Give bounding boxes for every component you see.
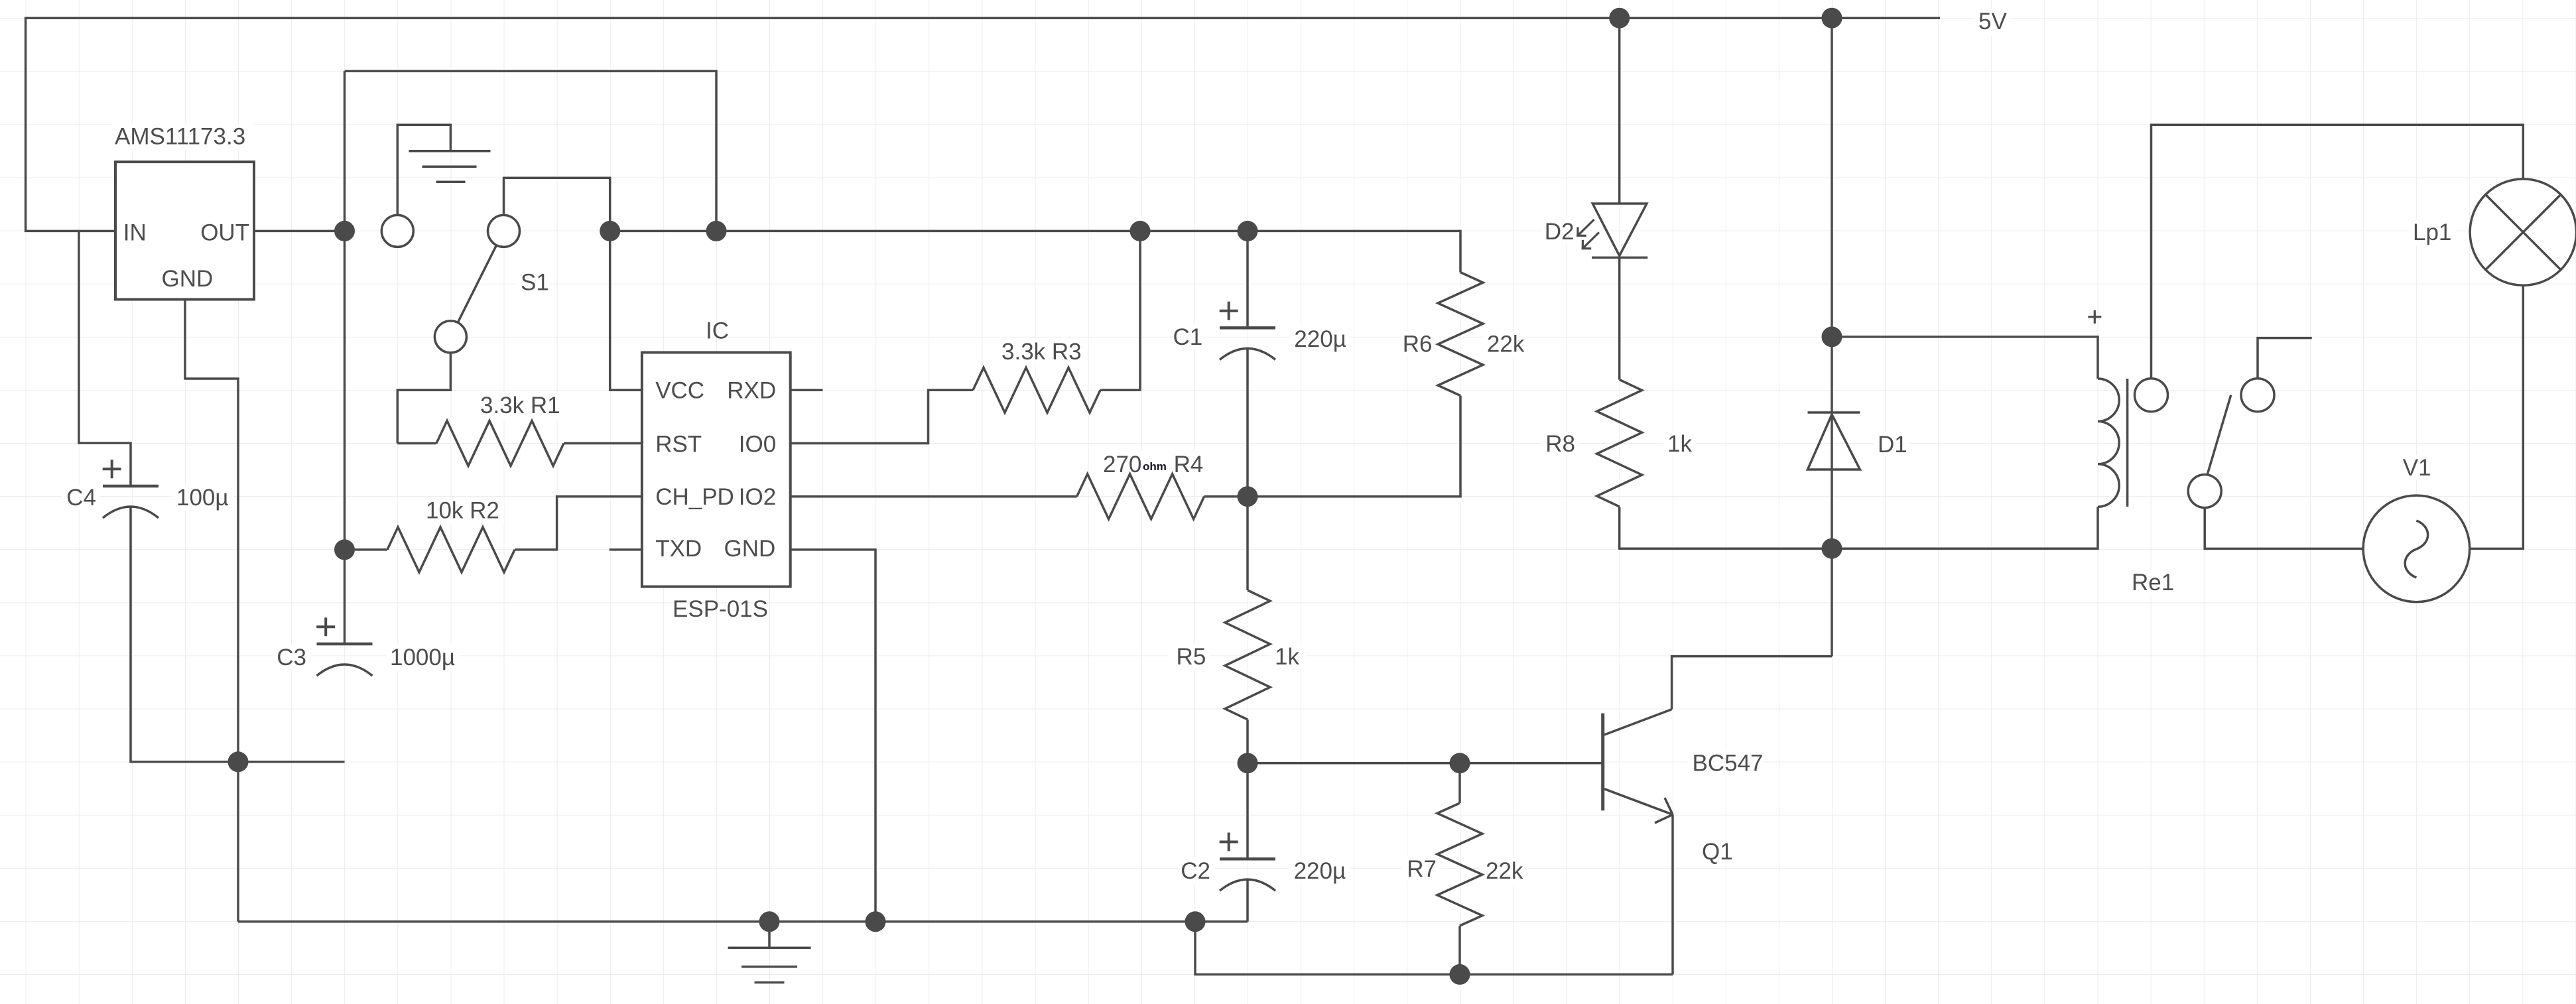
svg-text:VCC: VCC bbox=[655, 378, 704, 404]
svg-text:1k: 1k bbox=[1275, 644, 1299, 670]
svg-text:D1: D1 bbox=[1878, 432, 1907, 458]
junction dots bbox=[1609, 8, 1630, 29]
resistor R1 3.3k bbox=[397, 442, 436, 445]
wire S1 common to R1 bbox=[397, 352, 450, 444]
LED D2 bbox=[1592, 204, 1647, 256]
diode D1 vertical bbox=[1831, 18, 1833, 656]
wire base row bbox=[1248, 762, 1602, 765]
svg-text:C3: C3 bbox=[277, 645, 306, 670]
resistor R8 1k bbox=[1618, 257, 1621, 379]
lamp Lp1 bbox=[2470, 179, 2576, 285]
svg-text:R5: R5 bbox=[1177, 644, 1206, 670]
relay core bar bbox=[2126, 379, 2129, 507]
svg-text:IN: IN bbox=[123, 220, 147, 246]
wire C4 bottom to ground row bbox=[129, 506, 132, 762]
wire OUT to junction bbox=[254, 230, 345, 233]
wire junction down to ground rail bbox=[237, 762, 239, 922]
wire RXD stub bbox=[791, 389, 823, 392]
LED D2 arrows bbox=[1578, 220, 1594, 235]
capacitor C4 bbox=[103, 485, 159, 488]
transistor Q1 bbox=[1601, 714, 1604, 811]
svg-text:220µ: 220µ bbox=[1294, 326, 1346, 352]
resistor R6 22k bbox=[1438, 273, 1483, 396]
ground symbol top bbox=[409, 150, 491, 153]
svg-text:V1: V1 bbox=[2403, 455, 2431, 481]
svg-text:1k: 1k bbox=[1667, 431, 1692, 457]
wire S1 left terminal to ground symbol bbox=[397, 125, 450, 216]
relay Re1 contacts bbox=[2135, 379, 2168, 412]
wire IO2 to R4 bbox=[791, 495, 1077, 498]
wire AMS GND down bbox=[185, 300, 238, 762]
svg-text:Lp1: Lp1 bbox=[2413, 220, 2451, 245]
svg-text:10k R2: 10k R2 bbox=[426, 498, 499, 524]
regulator AMS11173.3 box bbox=[115, 162, 254, 299]
svg-text:100µ: 100µ bbox=[176, 485, 229, 511]
wire 3.3V vertical through C3 bbox=[344, 71, 346, 644]
ground symbol bottom bbox=[768, 922, 771, 948]
svg-text:Q1: Q1 bbox=[1702, 839, 1733, 865]
wire ground row C4-C3 bbox=[129, 761, 344, 763]
svg-text:RST: RST bbox=[655, 432, 702, 458]
wire R8/D1/coil bottom rail bbox=[1620, 547, 2098, 550]
wire 5V top rail bbox=[26, 17, 1940, 19]
diode D1 bbox=[1808, 411, 1860, 414]
wire ground rail drop to emitter rail bbox=[1195, 922, 1673, 975]
svg-text:ohm: ohm bbox=[1143, 460, 1167, 473]
svg-text:R4: R4 bbox=[1174, 452, 1204, 477]
svg-text:C2: C2 bbox=[1181, 858, 1210, 884]
resistor R4 270ohm bbox=[1077, 474, 1204, 519]
capacitor C3 bbox=[317, 643, 373, 646]
relay coil bbox=[2098, 379, 2119, 507]
resistor R7 22k bbox=[1458, 763, 1461, 803]
switch S1 bbox=[381, 215, 413, 247]
wire IN branch down to C4 bbox=[79, 231, 131, 486]
LED D2 lead from 5V bbox=[1618, 18, 1621, 204]
svg-text:220µ: 220µ bbox=[1294, 858, 1346, 884]
relay arm bbox=[2207, 395, 2231, 475]
svg-text:R6: R6 bbox=[1403, 332, 1433, 357]
svg-text:1000µ: 1000µ bbox=[390, 645, 455, 670]
svg-text:BC547: BC547 bbox=[1693, 751, 1764, 777]
svg-text:ESP-01S: ESP-01S bbox=[673, 596, 768, 622]
wire bypass top bbox=[345, 71, 717, 231]
svg-text:D2: D2 bbox=[1545, 219, 1575, 245]
source V1 bbox=[2363, 495, 2470, 602]
svg-text:22k: 22k bbox=[1487, 332, 1525, 357]
capacitor C2 leads bbox=[1246, 763, 1249, 859]
resistor R3 3.3k bbox=[973, 367, 1100, 412]
relay right contact stub bbox=[2258, 338, 2312, 379]
svg-text:IC: IC bbox=[706, 318, 729, 344]
svg-text:C4: C4 bbox=[66, 485, 96, 511]
svg-text:C1: C1 bbox=[1173, 324, 1202, 350]
resistor R2 10k bbox=[345, 548, 388, 551]
wire TXD stub bbox=[610, 548, 642, 551]
resistor R5 1k bbox=[1246, 497, 1249, 590]
wire collector path bbox=[1672, 657, 1832, 710]
svg-text:S1: S1 bbox=[521, 270, 549, 296]
svg-text:3.3k R1: 3.3k R1 bbox=[480, 393, 560, 418]
svg-text:OUT: OUT bbox=[200, 220, 249, 246]
svg-text:TXD: TXD bbox=[655, 536, 702, 562]
svg-text:IO0: IO0 bbox=[739, 432, 776, 458]
capacitor C1 bbox=[1220, 326, 1275, 330]
wire R3 to rail bbox=[1100, 231, 1140, 390]
wire R6 bottom to IO2 row bbox=[1248, 396, 1460, 497]
wire left feed from 5V to IN bbox=[26, 17, 115, 231]
wire 3.3V rail bbox=[610, 230, 1460, 233]
capacitor C2 bbox=[1220, 857, 1275, 861]
wire IO0 to R3 bbox=[791, 390, 973, 443]
svg-text:GND: GND bbox=[724, 536, 776, 562]
svg-text:Re1: Re1 bbox=[2132, 570, 2174, 596]
svg-text:R7: R7 bbox=[1407, 856, 1437, 882]
ic ESP-01S box bbox=[642, 353, 791, 587]
svg-text:3.3k R3: 3.3k R3 bbox=[1001, 339, 1082, 365]
wire relay + from D1 bbox=[1832, 337, 2098, 379]
wire V1 right to lamp bottom bbox=[2470, 285, 2524, 548]
svg-text:CH_PD: CH_PD bbox=[655, 484, 734, 510]
capacitor C1 leads bbox=[1246, 231, 1249, 328]
relay + sign bbox=[2088, 316, 2101, 318]
svg-text:R8: R8 bbox=[1545, 431, 1575, 457]
svg-text:22k: 22k bbox=[1486, 858, 1523, 884]
svg-text:IO2: IO2 bbox=[739, 484, 776, 510]
wire GND pin down bbox=[791, 550, 875, 922]
svg-text:270: 270 bbox=[1103, 452, 1141, 477]
svg-text:GND: GND bbox=[162, 266, 214, 292]
relay left contact lead to lamp bbox=[2152, 125, 2524, 379]
wire S1 right terminal bridge to VCC bbox=[504, 178, 642, 390]
wire R6 top lead bbox=[1459, 230, 1462, 273]
relay arm lead to V1 bbox=[2205, 508, 2363, 549]
svg-text:RXD: RXD bbox=[727, 378, 776, 404]
wire main ground rail bbox=[238, 920, 1248, 923]
wire emitter down bbox=[1671, 814, 1674, 974]
svg-text:AMS11173.3: AMS11173.3 bbox=[115, 124, 245, 150]
svg-text:5V: 5V bbox=[1978, 9, 2007, 34]
